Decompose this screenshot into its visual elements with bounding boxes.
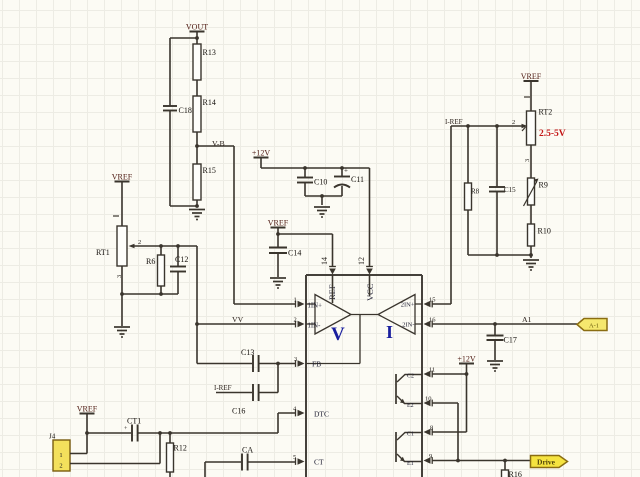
svg-text:FB: FB xyxy=(312,360,321,369)
svg-text:16: 16 xyxy=(429,317,436,324)
svg-text:2.5-5V: 2.5-5V xyxy=(539,129,566,139)
svg-text:V: V xyxy=(331,324,345,345)
svg-text:2IN+: 2IN+ xyxy=(401,302,415,309)
svg-text:I: I xyxy=(386,322,393,342)
svg-text:C11: C11 xyxy=(351,175,364,184)
svg-text:CT: CT xyxy=(314,458,324,467)
svg-text:C17: C17 xyxy=(504,336,517,345)
svg-text:11: 11 xyxy=(429,367,435,374)
svg-text:C13: C13 xyxy=(241,348,254,357)
svg-text:C18: C18 xyxy=(179,106,192,115)
svg-text:14: 14 xyxy=(320,257,329,265)
svg-text:3: 3 xyxy=(294,356,297,363)
svg-text:1: 1 xyxy=(294,297,297,304)
svg-text:R15: R15 xyxy=(203,166,216,175)
svg-text:C15: C15 xyxy=(504,186,516,194)
svg-text:RT2: RT2 xyxy=(539,108,553,117)
svg-text:C14: C14 xyxy=(288,249,301,258)
svg-text:+12V: +12V xyxy=(252,148,271,157)
svg-text:1IN-: 1IN- xyxy=(308,323,322,330)
svg-text:2: 2 xyxy=(512,119,515,126)
svg-text:V-B: V-B xyxy=(212,139,225,148)
svg-text:VOUT: VOUT xyxy=(186,22,208,31)
svg-text:3: 3 xyxy=(524,159,531,162)
svg-text:R10: R10 xyxy=(538,227,551,236)
svg-text:R12: R12 xyxy=(174,444,187,453)
svg-text:2: 2 xyxy=(59,463,62,470)
svg-text:2: 2 xyxy=(294,317,297,324)
svg-text:CA: CA xyxy=(242,446,253,455)
svg-text:R16: R16 xyxy=(509,470,522,477)
svg-text:R8: R8 xyxy=(471,188,480,196)
svg-text:VREF: VREF xyxy=(77,404,98,413)
svg-text:VREF: VREF xyxy=(521,72,542,81)
svg-text:A-1: A-1 xyxy=(589,323,599,330)
svg-text:C10: C10 xyxy=(314,178,327,187)
svg-text:12: 12 xyxy=(357,257,366,265)
svg-text:VREF: VREF xyxy=(112,172,133,181)
svg-text:DTC: DTC xyxy=(314,410,329,419)
svg-text:C2: C2 xyxy=(407,374,414,380)
svg-text:CT1: CT1 xyxy=(127,417,141,426)
svg-text:R9: R9 xyxy=(539,181,548,190)
svg-text:R6: R6 xyxy=(146,257,155,266)
svg-text:A1: A1 xyxy=(522,315,532,324)
svg-text:Drive: Drive xyxy=(537,458,556,467)
svg-text:J4: J4 xyxy=(49,433,56,441)
svg-text:1IN+: 1IN+ xyxy=(308,303,323,310)
svg-text:I-REF: I-REF xyxy=(214,384,232,392)
svg-text:5: 5 xyxy=(293,454,296,461)
svg-text:I-REF: I-REF xyxy=(445,118,463,126)
svg-text:2IN-: 2IN- xyxy=(402,322,414,329)
svg-text:10: 10 xyxy=(425,396,432,403)
svg-text:9: 9 xyxy=(429,453,432,460)
svg-text:C16: C16 xyxy=(232,407,245,416)
svg-text:+12V: +12V xyxy=(457,354,476,363)
svg-text:E2: E2 xyxy=(407,403,414,409)
svg-text:RT1: RT1 xyxy=(96,248,110,257)
svg-text:C1: C1 xyxy=(407,432,414,438)
svg-text:2: 2 xyxy=(138,239,141,246)
svg-text:R14: R14 xyxy=(203,98,216,107)
svg-text:15: 15 xyxy=(429,297,436,304)
svg-text:+: + xyxy=(344,167,348,175)
svg-text:VREF: VREF xyxy=(268,218,289,227)
svg-text:E1: E1 xyxy=(407,461,414,467)
svg-text:VV: VV xyxy=(232,315,244,324)
svg-text:C12: C12 xyxy=(175,255,188,264)
svg-text:8: 8 xyxy=(430,425,433,432)
svg-text:1: 1 xyxy=(59,452,62,459)
svg-text:R13: R13 xyxy=(203,48,216,57)
